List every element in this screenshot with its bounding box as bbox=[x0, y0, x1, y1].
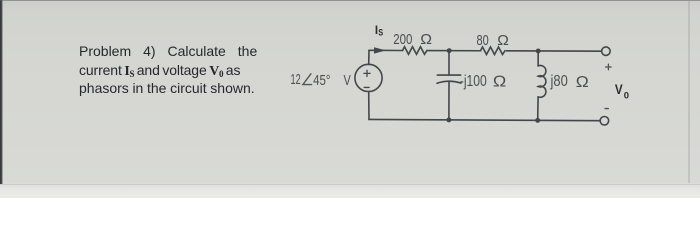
svg-text:Ω: Ω bbox=[493, 73, 506, 90]
inductor L1 coil bbox=[538, 65, 546, 97]
svg-text:0: 0 bbox=[624, 91, 629, 102]
svg-text:45°: 45° bbox=[313, 72, 330, 89]
problem statement line 1 bbox=[79, 44, 257, 58]
label: resistor 200 ohm bbox=[393, 31, 432, 48]
resistor R2 80 ohm zigzag bbox=[481, 47, 506, 55]
svg-text:V: V bbox=[344, 72, 351, 89]
label: capacitor -j100 ohm bbox=[460, 73, 507, 91]
svg-text:Ω: Ω bbox=[576, 74, 589, 91]
current direction arrow Is bbox=[374, 47, 386, 53]
wire: top left segment from source corner to resistor R1 bbox=[369, 49, 403, 51]
problem statement line 2 bbox=[79, 63, 240, 77]
paper crease right bbox=[688, 0, 690, 183]
output terminal top open circle bbox=[602, 47, 611, 56]
label: inductor j80 ohm bbox=[550, 73, 589, 91]
node dot: top capacitor junction bbox=[447, 48, 452, 53]
output polarity minus sign bbox=[605, 108, 608, 110]
paper bottom edge bbox=[0, 184, 700, 185]
source polarity minus sign bbox=[364, 86, 369, 88]
problem statement line 3 bbox=[79, 81, 255, 95]
wire: source top lead bbox=[368, 50, 370, 64]
svg-text:-j100: -j100 bbox=[460, 73, 487, 90]
left page edge dark line bbox=[0, 0, 3, 184]
wire: top middle segment through capacitor node bbox=[427, 50, 481, 52]
resistor R1 200 ohm zigzag bbox=[403, 47, 428, 55]
label: source current Is bbox=[375, 25, 383, 39]
svg-text:S: S bbox=[378, 27, 383, 38]
node dot: top inductor junction bbox=[536, 49, 541, 54]
capacitor C1 top plate bbox=[437, 74, 460, 76]
svg-text:Ω: Ω bbox=[420, 31, 432, 48]
voltage source VS circle bbox=[355, 64, 382, 91]
output polarity plus sign bbox=[606, 64, 612, 70]
node dot: bottom capacitor junction bbox=[446, 117, 451, 122]
label: output voltage V0 bbox=[615, 82, 629, 101]
capacitor C1 bottom curved plate bbox=[437, 81, 461, 83]
wire: capacitor top lead bbox=[448, 51, 450, 75]
top page edge shadow bbox=[0, 0, 700, 1]
wire: source bottom lead bbox=[368, 92, 370, 120]
svg-text:Ω: Ω bbox=[497, 32, 509, 49]
wire: top right segment to output terminal bbox=[507, 50, 602, 52]
output terminal bottom open circle bbox=[600, 117, 609, 126]
svg-text:V: V bbox=[615, 82, 623, 97]
wire: inductor top lead bbox=[537, 51, 539, 66]
wire: bottom return wire bbox=[369, 119, 600, 120]
label: resistor 80 ohm bbox=[477, 32, 509, 49]
svg-text:200: 200 bbox=[393, 31, 412, 48]
angle symbol of source phasor bbox=[303, 74, 312, 85]
label: source value 12 angle 45 deg V bbox=[291, 71, 351, 89]
svg-text:80: 80 bbox=[477, 32, 489, 49]
wire: inductor bottom lead bbox=[537, 97, 539, 121]
svg-text:j80: j80 bbox=[550, 73, 568, 90]
svg-text:12: 12 bbox=[291, 71, 301, 88]
source polarity plus sign bbox=[364, 70, 370, 76]
wire: capacitor bottom lead bbox=[448, 81, 450, 120]
node dot: bottom inductor junction bbox=[535, 118, 540, 123]
